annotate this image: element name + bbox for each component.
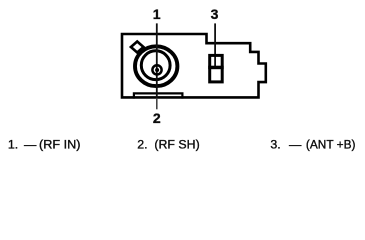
svg-text:2: 2	[153, 110, 161, 126]
svg-text:2.: 2.	[137, 138, 147, 152]
svg-text:1: 1	[153, 6, 161, 22]
coax center pin dot	[155, 68, 159, 72]
svg-text:3.: 3.	[270, 138, 280, 152]
leader line pins 1-2	[156, 23, 158, 98]
svg-text:(ANT +B): (ANT +B)	[306, 138, 356, 152]
svg-text:—: —	[24, 138, 37, 152]
index key diamond	[131, 42, 144, 53]
coax connector middle ring	[141, 51, 170, 80]
leader line pin 3	[214, 23, 216, 67]
svg-text:—: —	[289, 138, 302, 152]
module body outline	[122, 34, 266, 97]
pin 3 connector body	[210, 55, 223, 82]
svg-text:1.: 1.	[8, 138, 18, 152]
svg-text:(RF IN): (RF IN)	[39, 138, 81, 152]
coax connector outer ring	[135, 46, 177, 86]
svg-text:(RF SH): (RF SH)	[154, 138, 199, 152]
leader line tail to label 2	[156, 98, 158, 109]
svg-text:3: 3	[211, 6, 219, 22]
mounting flange bracket	[134, 93, 183, 98]
pin 3 divider band	[208, 66, 224, 70]
coax inner contact circle	[152, 65, 161, 74]
